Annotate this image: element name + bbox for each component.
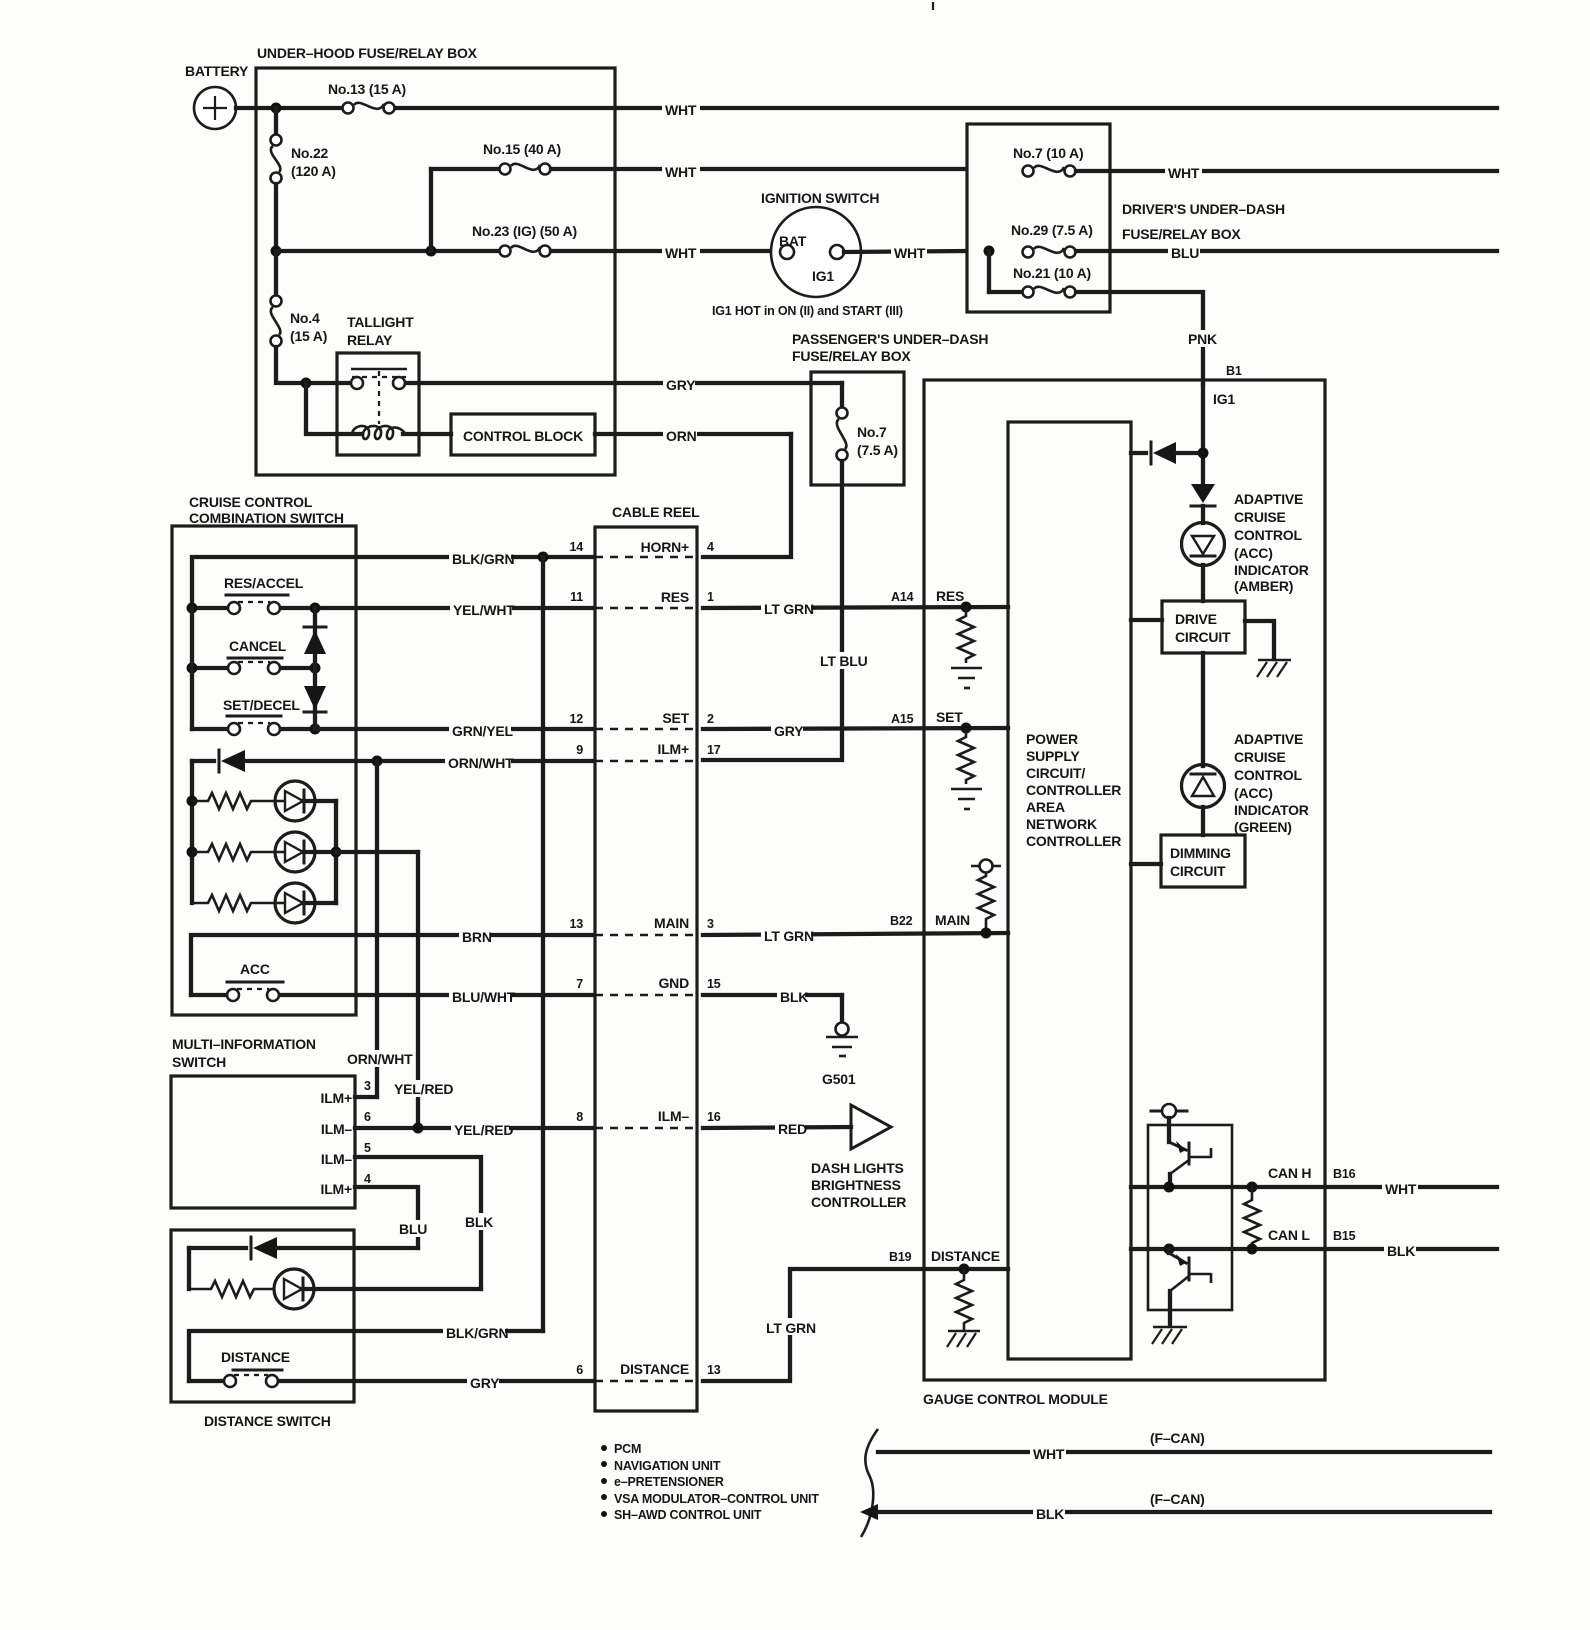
svg-text:WHT: WHT <box>894 245 926 261</box>
wire branch vertical to No.15 <box>429 169 433 251</box>
diode ACC amber feed (pointing down) <box>1191 484 1215 506</box>
wire F-CAN WHT <box>878 1444 1490 1461</box>
wire drive circuit to ground <box>1245 621 1274 659</box>
wire No.29 out BLU right <box>1076 243 1497 260</box>
svg-text:B16: B16 <box>1333 1167 1356 1181</box>
svg-text:GAUGE CONTROL MODULE: GAUGE CONTROL MODULE <box>923 1391 1108 1407</box>
ground G501 <box>822 995 858 1087</box>
svg-text:CIRCUIT: CIRCUIT <box>1175 629 1231 645</box>
svg-text:ILM+: ILM+ <box>321 1090 353 1106</box>
svg-text:G501: G501 <box>822 1071 856 1087</box>
LED ACC indicator green <box>1182 731 1309 835</box>
svg-text:13: 13 <box>707 1363 721 1377</box>
svg-text:6: 6 <box>576 1363 583 1377</box>
resistor R2 row2 <box>192 844 274 860</box>
wire control block out ORN <box>595 426 791 443</box>
svg-text:PNK: PNK <box>1188 331 1217 347</box>
svg-text:CONTROL BLOCK: CONTROL BLOCK <box>463 428 583 444</box>
wire No.7 out WHT right <box>1076 163 1497 180</box>
svg-text:4: 4 <box>707 540 714 554</box>
svg-text:YEL/RED: YEL/RED <box>394 1081 453 1097</box>
svg-text:WHT: WHT <box>1385 1181 1417 1197</box>
svg-text:WHT: WHT <box>1033 1446 1065 1462</box>
svg-text:SH–AWD CONTROL UNIT: SH–AWD CONTROL UNIT <box>614 1508 762 1522</box>
svg-text:BLU: BLU <box>399 1221 427 1237</box>
passenger's under-dash fuse/relay box <box>792 331 988 485</box>
dashed connector rows inside cable reel <box>595 556 697 558</box>
svg-text:ADAPTIVE: ADAPTIVE <box>1234 731 1303 747</box>
wire ORN down to horn pin4 <box>703 434 791 557</box>
wire coil to control block <box>403 432 451 436</box>
gauge control module box <box>923 380 1325 1407</box>
wire RES pin1 LT GRN to module <box>703 599 1008 616</box>
svg-text:ILM–: ILM– <box>321 1151 353 1167</box>
svg-text:ILM+: ILM+ <box>658 741 690 757</box>
svg-text:BLK: BLK <box>1387 1243 1415 1259</box>
fuse No.15 (40 A) <box>483 141 561 175</box>
svg-text:2: 2 <box>707 712 714 726</box>
svg-text:TALLIGHT: TALLIGHT <box>347 314 414 330</box>
svg-text:IGNITION SWITCH: IGNITION SWITCH <box>761 190 879 206</box>
ground B19 (hatch style) <box>947 1331 980 1347</box>
svg-text:(7.5 A): (7.5 A) <box>857 442 898 458</box>
svg-text:WHT: WHT <box>665 164 697 180</box>
svg-text:BLK: BLK <box>1036 1506 1064 1522</box>
svg-text:AREA: AREA <box>1026 799 1065 815</box>
fuse No.22 (120 A) <box>271 135 336 184</box>
svg-text:MAIN: MAIN <box>935 912 970 928</box>
wire BLK/GRN long vertical <box>541 557 545 1331</box>
svg-text:CONTROL: CONTROL <box>1234 767 1302 783</box>
svg-text:3: 3 <box>364 1079 371 1093</box>
svg-text:YEL/RED: YEL/RED <box>454 1122 513 1138</box>
node left rail res <box>187 603 198 614</box>
svg-text:UNDER–HOOD FUSE/RELAY BOX: UNDER–HOOD FUSE/RELAY BOX <box>257 45 478 61</box>
svg-text:1: 1 <box>707 590 714 604</box>
svg-text:BATTERY: BATTERY <box>185 63 249 79</box>
svg-text:ADAPTIVE: ADAPTIVE <box>1234 491 1303 507</box>
diode distance (pointing left) <box>189 1237 418 1259</box>
svg-text:FUSE/RELAY BOX: FUSE/RELAY BOX <box>792 348 911 364</box>
svg-text:BLU: BLU <box>1171 245 1199 261</box>
svg-text:BAT: BAT <box>779 233 807 249</box>
transistor Q1 (CAN H) <box>1169 1141 1211 1187</box>
svg-text:WHT: WHT <box>1168 165 1200 181</box>
resistor RES pulldown <box>958 607 974 663</box>
svg-text:PASSENGER'S UNDER–DASH: PASSENGER'S UNDER–DASH <box>792 331 988 347</box>
under-hood fuse/relay box <box>256 45 615 475</box>
svg-text:FUSE/RELAY BOX: FUSE/RELAY BOX <box>1122 226 1241 242</box>
svg-text:RES: RES <box>936 588 964 604</box>
node relay junction <box>301 378 312 389</box>
wire pin3 <box>355 1095 377 1099</box>
wire battery vertical <box>274 108 278 134</box>
ground CAN (hatch style) <box>1152 1327 1187 1344</box>
svg-text:(ACC): (ACC) <box>1234 785 1273 801</box>
svg-text:GND: GND <box>658 975 689 991</box>
wire No.15 out WHT <box>551 161 966 178</box>
svg-text:6: 6 <box>364 1110 371 1124</box>
svg-text:11: 11 <box>570 590 583 604</box>
svg-text:BLU/WHT: BLU/WHT <box>452 989 516 1005</box>
wire drive circuit down to green LED <box>1201 653 1205 766</box>
svg-text:VSA MODULATOR–CONTROL UNIT: VSA MODULATOR–CONTROL UNIT <box>614 1492 819 1506</box>
wire IG1 into module <box>1201 385 1205 484</box>
wire distance led rail left <box>187 1248 191 1289</box>
svg-text:B15: B15 <box>1333 1229 1356 1243</box>
inner power supply box <box>1008 422 1131 1359</box>
LED row1 <box>275 781 336 821</box>
resistor CAN termination <box>1244 1187 1260 1249</box>
node BLK/GRN junction <box>538 552 549 563</box>
svg-text:CAN H: CAN H <box>1268 1165 1311 1181</box>
svg-text:CAN L: CAN L <box>1268 1227 1310 1243</box>
svg-text:COMBINATION SWITCH: COMBINATION SWITCH <box>189 510 344 526</box>
svg-text:CONTROLLER: CONTROLLER <box>1026 782 1121 798</box>
resistor R3 row3 <box>192 895 274 911</box>
svg-text:CONTROLLER: CONTROLLER <box>1026 833 1121 849</box>
svg-text:POWER: POWER <box>1026 731 1078 747</box>
fuse No.29 (7.5 A) <box>1011 222 1093 258</box>
wire YEL/WHT row <box>192 600 594 617</box>
node IG1 diode junction <box>1198 448 1209 459</box>
svg-text:RELAY: RELAY <box>347 332 393 348</box>
svg-text:LT GRN: LT GRN <box>764 601 814 617</box>
svg-text:SUPPLY: SUPPLY <box>1026 748 1080 764</box>
diode D1 up between YEL/WHT and CANCEL rows <box>304 608 326 668</box>
svg-text:No.13 (15 A): No.13 (15 A) <box>328 81 406 97</box>
node branch No.15 <box>426 246 437 257</box>
svg-text:MAIN: MAIN <box>654 915 689 931</box>
svg-text:DRIVE: DRIVE <box>1175 611 1217 627</box>
svg-text:B1: B1 <box>1226 364 1242 378</box>
switch RES/ACCEL <box>224 575 304 614</box>
wire No.23 row <box>276 249 499 253</box>
transistor Q2 (CAN L) <box>1169 1249 1211 1326</box>
svg-text:15: 15 <box>707 977 721 991</box>
svg-text:LT GRN: LT GRN <box>766 1320 816 1336</box>
fuse No.7 (10 A) driver <box>1013 145 1083 177</box>
svg-text:(ACC): (ACC) <box>1234 545 1273 561</box>
node MAIN junction <box>981 928 992 939</box>
svg-text:No.22: No.22 <box>291 145 329 161</box>
diode into inner box (pointing left) <box>1131 442 1203 464</box>
wire No.22 to No.23 row <box>274 184 278 251</box>
wire relay contact out GRY <box>406 375 842 392</box>
svg-text:ORN/WHT: ORN/WHT <box>347 1051 413 1067</box>
stray scan mark top center <box>932 2 934 10</box>
svg-text:BLK: BLK <box>465 1214 493 1230</box>
ground drive (hatch style) <box>1257 660 1291 677</box>
svg-text:CANCEL: CANCEL <box>229 638 287 654</box>
wire BRN row from ACC <box>191 927 594 995</box>
svg-text:B19: B19 <box>889 1250 912 1264</box>
svg-text:(F–CAN): (F–CAN) <box>1150 1430 1205 1446</box>
svg-text:SWITCH: SWITCH <box>172 1054 226 1070</box>
svg-text:13: 13 <box>569 917 583 931</box>
F-CAN brace arc <box>861 1429 878 1537</box>
svg-text:ORN: ORN <box>666 428 697 444</box>
driver's under-dash fuse/relay box <box>967 124 1285 312</box>
svg-text:WHT: WHT <box>665 245 697 261</box>
svg-text:No.29 (7.5 A): No.29 (7.5 A) <box>1011 222 1093 238</box>
svg-text:GRY: GRY <box>470 1375 500 1391</box>
wire LED right rail <box>334 801 338 903</box>
dash lights brightness controller <box>811 1105 906 1210</box>
wire MAIN pin3 LT GRN to module <box>703 926 1008 943</box>
svg-text:INDICATOR: INDICATOR <box>1234 562 1309 578</box>
svg-text:IG1 HOT in ON (II) and START (: IG1 HOT in ON (II) and START (III) <box>712 304 903 318</box>
wire passenger fuse down to ILM+ pin17 (LT BLU) <box>703 461 842 760</box>
node SET junction <box>961 723 972 734</box>
svg-text:BLK: BLK <box>780 989 808 1005</box>
svg-text:(F–CAN): (F–CAN) <box>1150 1491 1205 1507</box>
svg-text:CRUISE: CRUISE <box>1234 509 1286 525</box>
svg-text:A15: A15 <box>891 712 914 726</box>
svg-text:B22: B22 <box>890 914 913 928</box>
fuse No.23 (IG) (50 A) <box>472 223 577 257</box>
CAN transistor block box <box>1148 1125 1232 1310</box>
wire LED to drive circuit <box>1201 565 1205 601</box>
wire BLK/GRN bottom row <box>189 1323 543 1381</box>
multi-information switch box <box>171 1036 355 1208</box>
control block <box>451 414 595 455</box>
svg-text:BRN: BRN <box>462 929 492 945</box>
svg-text:3: 3 <box>707 917 714 931</box>
switch SET/DECEL <box>192 697 315 735</box>
svg-text:SET: SET <box>662 710 689 726</box>
svg-text:9: 9 <box>576 743 583 757</box>
svg-text:DISTANCE: DISTANCE <box>620 1361 689 1377</box>
wire SET pin2 GRY to module <box>703 721 1008 738</box>
svg-text:CIRCUIT: CIRCUIT <box>1170 863 1226 879</box>
resistor R1 row1 <box>192 793 274 809</box>
label YEL/RED upper <box>392 1080 452 1097</box>
wire pin4 to BLU vertical <box>355 1187 418 1248</box>
ground SET (cap style) <box>951 789 982 809</box>
ignition switch <box>712 190 903 318</box>
wire battery to fuse No.13 and WHT line to right edge <box>236 99 1497 116</box>
wire CAN H row <box>1131 1179 1497 1196</box>
cable reel <box>595 504 700 1411</box>
switch CANCEL <box>192 638 315 674</box>
svg-text:12: 12 <box>569 712 583 726</box>
svg-text:DRIVER'S UNDER–DASH: DRIVER'S UNDER–DASH <box>1122 201 1285 217</box>
node <box>271 246 282 257</box>
dimming circuit box <box>1161 835 1245 887</box>
svg-text:No.15 (40 A): No.15 (40 A) <box>483 141 561 157</box>
bullet list of F-CAN units <box>601 1442 819 1522</box>
svg-text:DIMMING: DIMMING <box>1170 845 1231 861</box>
wire inner box to drive circuit <box>1131 618 1162 622</box>
svg-text:DISTANCE: DISTANCE <box>931 1248 1000 1264</box>
node B19 junction <box>959 1264 970 1275</box>
wire junction down to No.21 <box>987 251 991 292</box>
switch ACC <box>227 961 283 1001</box>
wire BLK/GRN row <box>192 549 594 607</box>
node battery junction <box>271 103 282 114</box>
svg-text:INDICATOR: INDICATOR <box>1234 802 1309 818</box>
svg-text:LT GRN: LT GRN <box>764 928 814 944</box>
svg-text:GRN/YEL: GRN/YEL <box>452 723 513 739</box>
svg-text:IG1: IG1 <box>812 268 834 284</box>
wire ILM- pin16 RED to controller <box>703 1119 851 1136</box>
fuse No.13 (15 A) <box>328 81 406 114</box>
node pin6 junction <box>413 1123 424 1134</box>
svg-text:ILM+: ILM+ <box>321 1181 353 1197</box>
svg-text:DISTANCE: DISTANCE <box>221 1349 290 1365</box>
svg-text:RES: RES <box>661 589 689 605</box>
svg-text:CRUISE CONTROL: CRUISE CONTROL <box>189 494 313 510</box>
wire fuse No.4 down to relay row <box>276 347 351 383</box>
diode ORN/WHT row (pointing left) <box>192 750 594 772</box>
svg-text:ILM–: ILM– <box>658 1108 690 1124</box>
diode D2 down between CANCEL and SET/DECEL rows <box>304 668 326 729</box>
svg-text:CIRCUIT/: CIRCUIT/ <box>1026 765 1085 781</box>
svg-text:CRUISE: CRUISE <box>1234 749 1286 765</box>
distance switch box <box>171 1230 354 1429</box>
svg-text:4: 4 <box>364 1172 371 1186</box>
wire pin5 to BLK vertical <box>355 1157 481 1289</box>
fuse No.4 (15 A) <box>271 296 328 347</box>
svg-text:No.7: No.7 <box>857 424 887 440</box>
svg-text:RED: RED <box>778 1121 807 1137</box>
svg-text:HORN+: HORN+ <box>641 539 689 555</box>
svg-text:DASH LIGHTS: DASH LIGHTS <box>811 1160 904 1176</box>
power terminal circle <box>1151 1104 1187 1142</box>
svg-text:PCM: PCM <box>614 1442 641 1456</box>
battery <box>185 63 249 129</box>
wire LED mid out to YEL/RED vertical <box>336 850 418 854</box>
cruise control combination switch box <box>172 494 356 1015</box>
switch DISTANCE <box>221 1349 290 1387</box>
svg-text:BRIGHTNESS: BRIGHTNESS <box>811 1177 901 1193</box>
resistor distance <box>189 1281 274 1297</box>
svg-text:MULTI–INFORMATION: MULTI–INFORMATION <box>172 1036 316 1052</box>
svg-text:8: 8 <box>576 1110 583 1124</box>
svg-text:(GREEN): (GREEN) <box>1234 819 1292 835</box>
svg-text:ACC: ACC <box>240 961 270 977</box>
svg-text:NAVIGATION UNIT: NAVIGATION UNIT <box>614 1459 721 1473</box>
svg-text:A14: A14 <box>891 590 914 604</box>
svg-text:CONTROLLER: CONTROLLER <box>811 1194 906 1210</box>
wire junction down to coil row <box>306 383 362 434</box>
wire DISTANCE pin13 LT GRN corner to module <box>703 1269 1008 1381</box>
svg-text:RES/ACCEL: RES/ACCEL <box>224 575 304 591</box>
wire LED block left rail <box>190 761 194 903</box>
svg-text:WHT: WHT <box>665 102 697 118</box>
LED row3 <box>275 883 336 923</box>
svg-text:No.4: No.4 <box>290 310 320 326</box>
svg-text:No.21 (10 A): No.21 (10 A) <box>1013 265 1091 281</box>
svg-text:IG1: IG1 <box>1213 391 1235 407</box>
svg-text:No.7 (10 A): No.7 (10 A) <box>1013 145 1083 161</box>
svg-text:LT BLU: LT BLU <box>820 653 868 669</box>
svg-text:(15 A): (15 A) <box>290 328 327 344</box>
wire F-CAN BLK with arrow <box>860 1504 1490 1521</box>
svg-text:7: 7 <box>576 977 583 991</box>
svg-text:BLK/GRN: BLK/GRN <box>446 1325 508 1341</box>
svg-text:NETWORK: NETWORK <box>1026 816 1097 832</box>
wire GRN/YEL row <box>315 721 594 738</box>
wire ignition IG1 out WHT <box>844 243 966 260</box>
svg-text:GRY: GRY <box>774 723 804 739</box>
wire green LED to dimming circuit <box>1201 807 1205 835</box>
node No.29 junction <box>984 246 995 257</box>
node ORN/WHT junction <box>372 756 383 767</box>
drive circuit box <box>1162 601 1245 653</box>
svg-text:SET: SET <box>936 709 963 725</box>
wire inner box to dimming circuit <box>1131 862 1161 866</box>
svg-text:SET/DECEL: SET/DECEL <box>223 697 300 713</box>
svg-text:(AMBER): (AMBER) <box>1234 578 1293 594</box>
wire No.4 branch <box>274 251 278 295</box>
resistor SET pulldown <box>958 728 974 784</box>
wire GRY into passenger fuse <box>840 383 844 407</box>
svg-text:e–PRETENSIONER: e–PRETENSIONER <box>614 1475 724 1489</box>
label ORN/WHT above pin3 <box>345 1050 413 1067</box>
fuse No.7 (7.5 A) passenger <box>837 408 898 461</box>
wire CAN L row <box>1131 1241 1497 1258</box>
wire left rail switches <box>190 608 194 729</box>
fuse No.21 (10 A) <box>1013 265 1091 298</box>
svg-text:BLK/GRN: BLK/GRN <box>452 551 514 567</box>
svg-text:ORN/WHT: ORN/WHT <box>448 755 514 771</box>
ground RES (cap style) <box>951 668 982 688</box>
svg-text:CABLE REEL: CABLE REEL <box>612 504 700 520</box>
wire GND pin15 BLK to ground <box>703 987 842 1004</box>
LED ACC indicator amber <box>1182 491 1309 594</box>
svg-text:DISTANCE SWITCH: DISTANCE SWITCH <box>204 1413 331 1429</box>
LED distance <box>274 1269 481 1309</box>
resistor B19 pulldown <box>956 1269 972 1330</box>
wire BLU/WHT row <box>280 987 594 1004</box>
svg-text:5: 5 <box>364 1141 371 1155</box>
node diode rail res <box>310 603 321 614</box>
node RES junction <box>961 602 972 613</box>
svg-text:ILM–: ILM– <box>321 1121 353 1137</box>
svg-text:(120 A): (120 A) <box>291 163 336 179</box>
wire GRY bottom row <box>279 1373 594 1390</box>
svg-text:17: 17 <box>707 743 721 757</box>
wire pin6 ILM- YEL/RED row <box>355 1120 594 1137</box>
wire No.21 out PNK corner down <box>1076 292 1203 385</box>
svg-text:14: 14 <box>569 540 583 554</box>
wire No.23 out WHT to ignition <box>551 243 780 260</box>
wire ORN/WHT vertical down to multi-info pin3 <box>375 761 379 1097</box>
svg-text:16: 16 <box>707 1110 721 1124</box>
svg-text:GRY: GRY <box>666 377 696 393</box>
LED row2 <box>275 832 336 872</box>
tallight relay <box>337 314 419 455</box>
svg-text:No.23 (IG) (50 A): No.23 (IG) (50 A) <box>472 223 577 239</box>
MAIN pullup with circle terminal <box>971 860 1001 934</box>
svg-text:YEL/WHT: YEL/WHT <box>453 602 515 618</box>
svg-text:CONTROL: CONTROL <box>1234 527 1302 543</box>
